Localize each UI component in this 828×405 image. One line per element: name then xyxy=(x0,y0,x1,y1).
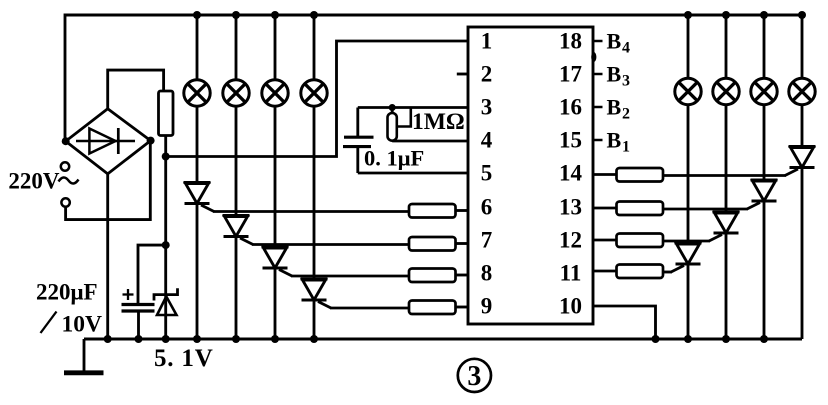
svg-text:B: B xyxy=(607,95,622,120)
svg-text:220V: 220V xyxy=(8,169,60,194)
svg-text:2: 2 xyxy=(622,106,630,123)
svg-text:14: 14 xyxy=(559,161,583,186)
svg-text:0. 1μF: 0. 1μF xyxy=(364,146,424,171)
svg-text:18: 18 xyxy=(559,29,582,54)
svg-text:17: 17 xyxy=(559,62,582,87)
svg-text:220μF: 220μF xyxy=(36,280,98,305)
svg-text:3: 3 xyxy=(467,361,481,392)
svg-text:4: 4 xyxy=(622,40,630,57)
svg-text:11: 11 xyxy=(560,261,582,286)
svg-text:10V: 10V xyxy=(62,312,103,338)
svg-text:5: 5 xyxy=(481,161,493,186)
svg-text:10: 10 xyxy=(559,294,582,319)
svg-text:B: B xyxy=(607,128,622,153)
svg-text:16: 16 xyxy=(559,95,582,120)
svg-text:7: 7 xyxy=(481,228,493,253)
svg-text:B: B xyxy=(607,62,622,87)
svg-text:6: 6 xyxy=(481,195,493,220)
svg-text:4: 4 xyxy=(481,128,493,153)
svg-text:2: 2 xyxy=(481,62,493,87)
svg-text:1: 1 xyxy=(622,139,630,156)
svg-text:1: 1 xyxy=(481,29,493,54)
svg-text:1MΩ: 1MΩ xyxy=(412,109,465,135)
svg-text:3: 3 xyxy=(622,73,630,90)
svg-text:8: 8 xyxy=(481,261,493,286)
svg-text:15: 15 xyxy=(559,128,582,153)
svg-text:12: 12 xyxy=(559,228,582,253)
svg-text:B: B xyxy=(607,29,622,54)
svg-text:3: 3 xyxy=(481,95,493,120)
svg-text:13: 13 xyxy=(559,195,582,220)
svg-text:5. 1V: 5. 1V xyxy=(154,345,214,372)
svg-text:9: 9 xyxy=(481,294,493,319)
